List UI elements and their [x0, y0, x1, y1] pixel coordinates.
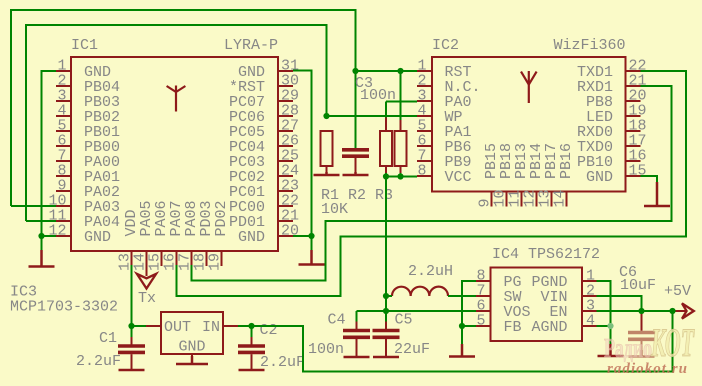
C5 top lead: [385, 322, 387, 331]
C1 top lead: [131, 337, 133, 345]
svg-text:14: 14: [552, 189, 569, 207]
svg-text:22uF: 22uF: [394, 341, 430, 358]
wire R2 top to PA0 net: [385, 102, 387, 118]
junction WP / R1 top: [323, 113, 329, 119]
IC2 pin 19 stub: [626, 115, 641, 117]
svg-text:GND: GND: [586, 169, 613, 186]
IC2 pin 7 stub: [417, 160, 432, 162]
svg-text:IN: IN: [202, 319, 220, 336]
C4 top lead: [356, 322, 358, 330]
svg-text:C1: C1: [99, 330, 117, 347]
IC1 pin 14 stub: [146, 251, 148, 266]
wire WP net R1 to IC2 pin4: [327, 115, 418, 117]
IC2 pin 1 stub: [417, 70, 432, 72]
wire IC2 pin15 GND to ground: [641, 176, 658, 183]
wire R3 bottom to VCC net: [400, 173, 402, 177]
C1 bottom lead: [131, 354, 133, 369]
wire PA03 up over the top to RST node: [11, 10, 356, 206]
ground under C1: [119, 369, 145, 370]
IC4 pin 6 stub: [476, 310, 491, 312]
wire IC1 pin12 GND to vertical: [42, 235, 57, 237]
ground symbol for IC2 GND: [644, 182, 670, 206]
C5 bottom lead: [385, 339, 387, 357]
junction RST / C3 / top wire: [352, 68, 358, 74]
svg-text:FB: FB: [504, 319, 522, 336]
wire FB to vertical: [462, 325, 476, 327]
IC1 pin 21 stub: [278, 220, 293, 222]
wire RST node down to C3 top: [355, 71, 357, 148]
IC1 pin 28 stub: [278, 115, 293, 117]
svg-text:PD02: PD02: [213, 200, 230, 236]
IC1 pin 6 stub: [56, 145, 71, 147]
IC3 OUT pin stub: [146, 325, 161, 327]
IC3 MCP1703-3302 regulator box: [161, 312, 223, 354]
svg-text:VCC: VCC: [445, 169, 472, 186]
IC2 pin 20 stub: [626, 100, 641, 102]
IC1 pin 9 stub: [56, 190, 71, 192]
IC3 IN pin stub: [223, 325, 238, 327]
junction 3.3V / inductor: [383, 293, 389, 299]
svg-text:8: 8: [417, 163, 426, 180]
R3 bottom lead: [400, 166, 402, 173]
IC2 pin 4 stub: [417, 115, 432, 117]
IC1 pin 29 stub: [278, 100, 293, 102]
wire IC4 EN to +5V arrow: [597, 310, 673, 312]
R2 bottom lead: [385, 166, 387, 173]
IC1 pin 26 stub: [278, 145, 293, 147]
IC1 pin 15 stub: [161, 251, 163, 266]
wire IC4 VIN to +5V / C6: [597, 296, 642, 313]
ground under C2: [239, 369, 265, 370]
IC1 pin 7 stub: [56, 160, 71, 162]
IC2 pin 9 stub: [491, 192, 493, 207]
ground under C5: [373, 356, 399, 357]
inductor L1 2.2uH: [392, 287, 448, 296]
wire IC1 pin11 PA04 horizontal: [26, 220, 56, 222]
IC2 pin 12 stub: [536, 192, 538, 207]
IC2 pin 21 stub: [626, 85, 641, 87]
svg-text:IC1: IC1: [71, 37, 98, 54]
svg-text:Tx: Tx: [138, 290, 156, 307]
svg-text:C2: C2: [260, 322, 278, 339]
junction VCC / R2 bottom: [383, 173, 389, 179]
wire R3 top to RST net: [400, 71, 402, 120]
svg-text:2.2uF: 2.2uF: [76, 353, 121, 370]
R1 bottom lead: [326, 166, 328, 172]
svg-text:2.2uF: 2.2uF: [260, 354, 305, 371]
IC4 pin 4 stub: [582, 325, 597, 327]
wire PA0 net to IC2 pin3: [386, 101, 417, 103]
svg-text:10K: 10K: [321, 201, 348, 218]
wire VOS net from C4 to IC4 pin6: [357, 310, 477, 312]
wire 3.3V rail down to C5: [385, 296, 387, 322]
junction PGND / AGND: [607, 323, 613, 329]
ground symbol left of IC1: [29, 250, 55, 267]
lead into +5V arrow: [673, 310, 688, 312]
IC1 pin 31 stub: [278, 70, 293, 72]
IC4 pin 3 stub: [582, 310, 597, 312]
antenna symbol inside IC1: [167, 86, 186, 112]
IC1 pin 10 stub: [56, 205, 71, 207]
junction PG / FB: [459, 323, 465, 329]
wire IC1 pin10 PA03 horizontal: [11, 205, 56, 207]
IC2 pin 11 stub: [521, 192, 523, 207]
IC1 pin14 extension to Tx arrow: [146, 266, 148, 276]
C2 top lead: [251, 337, 253, 345]
junction EN / VIN / C6: [638, 308, 644, 314]
svg-text:+5V: +5V: [664, 283, 691, 300]
C2 bottom lead: [251, 354, 253, 369]
C6 top lead: [641, 313, 643, 331]
wire IC4 PG down to FB/ground: [462, 281, 476, 345]
svg-text:IC2: IC2: [432, 37, 459, 54]
svg-text:100n: 100n: [308, 341, 344, 358]
junction IC1 pin20 GND: [308, 233, 314, 239]
wire down to C2: [251, 326, 253, 337]
IC1 pin 30 stub: [278, 85, 293, 87]
ground under C3: [343, 172, 369, 175]
IC1 pin 18 stub: [206, 251, 208, 266]
capacitor C2 2.2uF: [238, 346, 265, 352]
wire down to C1: [131, 326, 133, 337]
resistor R3 10K: [395, 131, 407, 166]
wire TXD1 to IC1 pin16 PA07: [177, 71, 687, 296]
IC2 pin 14 stub: [566, 192, 568, 207]
IC1 pin 11 stub: [56, 220, 71, 222]
wire VCC net to IC2 pin8: [386, 176, 417, 178]
IC4 pin 7 stub: [476, 295, 491, 297]
ground symbol under FB: [449, 344, 475, 357]
IC2 pin 3 stub: [417, 100, 432, 102]
IC1 pin 5 stub: [56, 130, 71, 132]
IC4 pin 2 stub: [582, 295, 597, 297]
antenna symbol inside IC2: [521, 71, 537, 103]
wire VOS node down to C4: [356, 311, 358, 322]
IC4 pin 8 stub: [476, 280, 491, 282]
svg-text:OUT: OUT: [164, 319, 191, 336]
IC2 pin 6 stub: [417, 145, 432, 147]
+5V supply arrow symbol: [682, 303, 694, 318]
resistor R2 10K: [380, 131, 392, 166]
IC1 pin 16 stub: [176, 251, 178, 266]
IC1 pin 27 stub: [278, 130, 293, 132]
IC1 pin 2 stub: [56, 85, 71, 87]
IC2 pin 5 stub: [417, 130, 432, 132]
svg-text:LYRA-P: LYRA-P: [224, 37, 278, 54]
IC1 pin 12 stub: [56, 235, 71, 237]
IC3 GND pin stub: [191, 354, 193, 361]
IC1 pin 23 stub: [278, 190, 293, 192]
capacitor C6 10uF: [628, 333, 655, 340]
IC2 pin 13 stub: [551, 192, 553, 207]
capacitor C4 100n: [343, 331, 370, 338]
wire inductor right to IC4 SW: [448, 295, 476, 297]
wire RXD1 to IC1 pin17 PA08: [192, 86, 672, 281]
IC1 pin 24 stub: [278, 175, 293, 177]
capacitor C3 100n: [342, 150, 369, 156]
IC2 pin 10 stub: [506, 192, 508, 207]
IC4 TPS62172 buck converter box: [491, 268, 583, 342]
svg-text:IC4 TPS62172: IC4 TPS62172: [492, 246, 600, 263]
ground under C4: [344, 356, 370, 357]
wire RST net to IC2 pin1: [356, 70, 418, 72]
IC2 pin 2 stub: [417, 85, 432, 87]
IC2 WizFi360 module box: [432, 57, 626, 192]
ground under C6: [629, 350, 655, 357]
svg-text:КОТ: КОТ: [650, 320, 694, 365]
IC1 pin 20 stub: [278, 235, 293, 237]
junction IC1 GND left: [38, 233, 44, 239]
IC2 pin 16 stub: [626, 160, 641, 162]
IC1 pin 25 stub: [278, 160, 293, 162]
svg-text:2.2uH: 2.2uH: [408, 263, 453, 280]
wire IC4 PGND down to AGND/ground: [597, 281, 611, 345]
junction IN / C2: [248, 323, 254, 329]
svg-text:radiokot.ru: radiokot.ru: [607, 361, 687, 377]
svg-text:AGND: AGND: [531, 319, 567, 336]
svg-text:GND: GND: [238, 229, 265, 246]
wire IC1 pin1 GND down the left side: [42, 71, 57, 252]
svg-text:Радио: Радио: [604, 333, 652, 363]
svg-text:GND: GND: [178, 339, 205, 356]
IC4 pin 1 stub: [582, 280, 597, 282]
resistor R1 10K: [321, 131, 333, 166]
IC1 pin 22 stub: [278, 205, 293, 207]
IC2 pin 15 stub: [626, 175, 641, 177]
C3 bottom lead: [355, 158, 357, 172]
wire 3.3V node to inductor left: [386, 295, 392, 297]
IC1 pin 19 stub: [221, 251, 223, 266]
capacitor C5 22uF: [373, 331, 400, 338]
svg-text:WizFi360: WizFi360: [553, 37, 625, 54]
svg-text:19: 19: [207, 253, 224, 271]
svg-text:5: 5: [476, 313, 485, 330]
IC1 pin 8 stub: [56, 175, 71, 177]
ground symbol under IC3: [176, 356, 208, 364]
svg-text:PB16: PB16: [558, 143, 575, 179]
Tx output arrow symbol: [137, 274, 156, 289]
ground under R1: [314, 172, 340, 175]
IC1 LYRA-P module box: [71, 57, 278, 251]
junction RST / R3 top: [397, 68, 403, 74]
IC1 pin 3 stub: [56, 100, 71, 102]
junction VCC / R3 bottom: [397, 173, 403, 179]
IC2 pin 8 stub: [417, 175, 432, 177]
wire IC1 pin31 GND down right side: [293, 71, 312, 253]
ground symbol right of IC1: [299, 250, 325, 265]
R3 top lead: [400, 120, 402, 131]
svg-text:C4: C4: [328, 312, 346, 329]
IC2 pin 18 stub: [626, 130, 641, 132]
svg-text:C5: C5: [395, 312, 413, 329]
junction VDD / C1 / OUT: [128, 323, 134, 329]
IC2 pin 22 stub: [626, 70, 641, 72]
capacitor C1 2.2uF: [118, 346, 145, 352]
junction +5V rail drop: [669, 308, 675, 314]
IC1 pin 4 stub: [56, 115, 71, 117]
C6 bottom lead: [641, 341, 643, 357]
R2 top lead: [385, 118, 387, 132]
IC1 pin 1 stub: [56, 70, 71, 72]
svg-text:4: 4: [586, 313, 595, 330]
wire IC1 pin20 GND to vertical: [293, 235, 312, 237]
wire AGND to vertical: [597, 325, 611, 327]
svg-text:10uF: 10uF: [620, 277, 656, 294]
wire IC3 IN to +5V bottom rail: [238, 311, 673, 372]
C4 bottom lead: [356, 339, 358, 357]
IC1 pin 13 stub: [131, 251, 133, 266]
svg-text:GND: GND: [84, 229, 111, 246]
IC2 pin 17 stub: [626, 145, 641, 147]
wire 3.3V rail down from R2 bottom: [385, 173, 387, 296]
svg-text:MCP1703-3302: MCP1703-3302: [10, 299, 118, 316]
junction VOS / 3.3V rail: [383, 308, 389, 314]
ground symbol under AGND: [598, 344, 624, 356]
IC1 pin 17 stub: [191, 251, 193, 266]
wire IC1 pin13 VDD down to IC3 OUT: [132, 265, 147, 326]
IC4 pin 5 stub: [476, 325, 491, 327]
wire PA04 up over the top to WP node: [26, 25, 327, 221]
